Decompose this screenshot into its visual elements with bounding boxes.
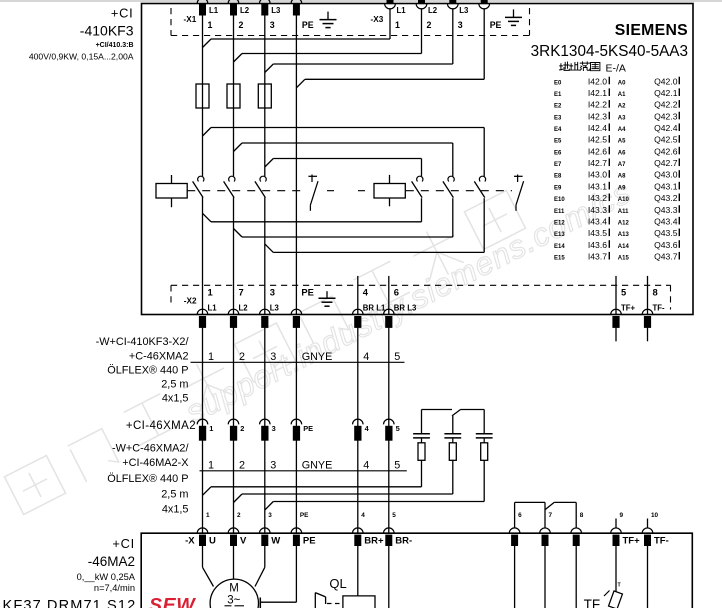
- svg-text:+CI: +CI: [112, 536, 135, 551]
- svg-text:8: 8: [580, 512, 584, 519]
- svg-text:-X3: -X3: [371, 15, 384, 24]
- svg-text:L2: L2: [428, 6, 438, 15]
- svg-text:ÖLFLEX® 440 P: ÖLFLEX® 440 P: [107, 473, 188, 485]
- svg-text:+CI-46XMA2: +CI-46XMA2: [126, 420, 196, 432]
- svg-text:5: 5: [396, 424, 400, 433]
- svg-text:ÖLFLEX® 440 P: ÖLFLEX® 440 P: [107, 364, 188, 376]
- svg-text:L3: L3: [270, 304, 280, 313]
- svg-text:A7: A7: [618, 162, 626, 168]
- svg-text:1: 1: [209, 424, 213, 433]
- svg-text:E5: E5: [554, 139, 562, 145]
- svg-text:A14: A14: [618, 244, 630, 250]
- svg-text:+CI-46MA2-X: +CI-46MA2-X: [122, 457, 189, 469]
- svg-text:TF+: TF+: [623, 536, 641, 547]
- svg-text:3: 3: [268, 512, 272, 519]
- svg-text:4: 4: [363, 286, 369, 297]
- svg-text:3: 3: [458, 20, 463, 30]
- svg-text:E0: E0: [554, 80, 562, 86]
- svg-text:BR L1: BR L1: [363, 304, 386, 313]
- svg-text:-410KF3: -410KF3: [80, 23, 134, 39]
- svg-text:I43.5: I43.5: [588, 228, 607, 238]
- svg-text:A13: A13: [618, 232, 630, 238]
- svg-text:E1: E1: [554, 92, 562, 98]
- svg-text:GNYE: GNYE: [302, 351, 333, 363]
- svg-text:5: 5: [392, 512, 396, 519]
- svg-text:L3: L3: [459, 6, 469, 15]
- svg-text:7: 7: [549, 512, 553, 519]
- svg-text:1: 1: [208, 20, 213, 30]
- svg-text:PE: PE: [301, 286, 314, 297]
- svg-text:A9: A9: [618, 185, 626, 191]
- svg-text:A15: A15: [618, 256, 630, 262]
- svg-text:2: 2: [237, 512, 241, 519]
- svg-text:BR-: BR-: [395, 536, 412, 547]
- svg-text:A6: A6: [618, 150, 626, 156]
- svg-text:1: 1: [395, 20, 400, 30]
- svg-text:9: 9: [620, 512, 624, 519]
- svg-text:Q42.2: Q42.2: [654, 100, 678, 110]
- svg-text:E-/A: E-/A: [606, 63, 626, 75]
- svg-text:2: 2: [240, 424, 244, 433]
- svg-text:6: 6: [518, 512, 522, 519]
- svg-text:1: 1: [208, 351, 214, 363]
- svg-text:-W+CI-410KF3-X2/: -W+CI-410KF3-X2/: [96, 336, 190, 348]
- svg-text:PE: PE: [490, 20, 502, 30]
- svg-text:5: 5: [394, 460, 400, 472]
- svg-text:3~: 3~: [227, 594, 240, 606]
- svg-text:TF-: TF-: [653, 304, 666, 313]
- svg-text:GNYE: GNYE: [302, 460, 333, 472]
- svg-text:E6: E6: [554, 150, 562, 156]
- svg-text:A2: A2: [618, 104, 626, 110]
- svg-text:A10: A10: [618, 197, 630, 203]
- svg-text:1: 1: [208, 460, 214, 472]
- svg-text:I43.3: I43.3: [588, 205, 607, 215]
- svg-text:0,__kW 0,25A: 0,__kW 0,25A: [77, 572, 136, 582]
- svg-text:I43.2: I43.2: [588, 193, 607, 203]
- svg-text:I43.6: I43.6: [588, 240, 607, 250]
- svg-text:3: 3: [270, 351, 276, 363]
- svg-text:M: M: [229, 582, 239, 594]
- svg-text:I43.4: I43.4: [588, 216, 607, 226]
- svg-text:I42.0: I42.0: [588, 76, 607, 86]
- svg-text:Q42.7: Q42.7: [654, 158, 678, 168]
- svg-text:L1: L1: [208, 304, 218, 313]
- svg-text:3: 3: [270, 286, 275, 297]
- svg-text:5: 5: [394, 351, 400, 363]
- svg-text:U: U: [209, 536, 216, 547]
- svg-text:-X2: -X2: [184, 297, 197, 306]
- svg-text:A1: A1: [618, 92, 626, 98]
- svg-text:Q42.1: Q42.1: [654, 88, 678, 98]
- svg-text:1: 1: [208, 286, 213, 297]
- svg-text:-46MA2: -46MA2: [88, 554, 135, 569]
- svg-text:PE: PE: [302, 20, 314, 30]
- svg-text:TF-: TF-: [654, 536, 669, 547]
- svg-text:Q43.2: Q43.2: [654, 193, 678, 203]
- svg-text:2: 2: [427, 20, 432, 30]
- svg-text:E9: E9: [554, 185, 562, 191]
- svg-text:2,5 m: 2,5 m: [161, 489, 188, 501]
- svg-text:Q42.0: Q42.0: [654, 76, 678, 86]
- svg-text:BR L3: BR L3: [394, 304, 417, 313]
- svg-text:E2: E2: [554, 104, 562, 110]
- svg-text:A4: A4: [618, 127, 626, 133]
- svg-text:A11: A11: [618, 209, 629, 215]
- svg-text:3: 3: [270, 460, 276, 472]
- svg-text:A5: A5: [618, 139, 626, 145]
- svg-text:5: 5: [621, 286, 626, 297]
- svg-text:E15: E15: [554, 256, 565, 262]
- svg-text:KF37 DRM71 S12: KF37 DRM71 S12: [3, 598, 137, 608]
- svg-text:E3: E3: [554, 115, 562, 121]
- svg-text:TF+: TF+: [621, 304, 636, 313]
- svg-text:4x1,5: 4x1,5: [162, 504, 189, 516]
- svg-text:400V/0,9KW, 0,15A...2,00A: 400V/0,9KW, 0,15A...2,00A: [29, 51, 134, 61]
- svg-text:E11: E11: [554, 209, 565, 215]
- svg-text:I42.4: I42.4: [588, 123, 607, 133]
- svg-text:E10: E10: [554, 197, 565, 203]
- svg-text:-W+C-46XMA2/: -W+C-46XMA2/: [112, 443, 190, 455]
- svg-text:+C-46XMA2: +C-46XMA2: [129, 350, 189, 362]
- svg-text:10: 10: [651, 512, 659, 519]
- svg-text:4: 4: [363, 351, 369, 363]
- svg-text:L1: L1: [397, 6, 407, 15]
- svg-text:L3: L3: [271, 6, 281, 15]
- svg-text:A12: A12: [618, 220, 630, 226]
- svg-text:L1: L1: [209, 6, 219, 15]
- svg-text:4: 4: [363, 460, 369, 472]
- svg-text:E13: E13: [554, 232, 565, 238]
- svg-text:Q42.4: Q42.4: [654, 123, 678, 133]
- svg-text:V: V: [240, 536, 247, 547]
- svg-text:1: 1: [206, 512, 210, 519]
- svg-text:I42.1: I42.1: [588, 88, 607, 98]
- svg-text:Q43.6: Q43.6: [654, 240, 678, 250]
- svg-text:E4: E4: [554, 127, 562, 133]
- svg-text:I42.2: I42.2: [588, 100, 607, 110]
- svg-text:Q42.3: Q42.3: [654, 111, 678, 121]
- svg-text:W: W: [271, 536, 280, 547]
- svg-text:+CI: +CI: [111, 5, 134, 20]
- svg-text:2: 2: [239, 20, 244, 30]
- svg-text:L2: L2: [240, 6, 250, 15]
- svg-text:4: 4: [361, 512, 365, 519]
- svg-text:2: 2: [239, 460, 245, 472]
- svg-text:A3: A3: [618, 115, 626, 121]
- svg-text:Q42.6: Q42.6: [654, 146, 678, 156]
- svg-text:Q43.1: Q43.1: [654, 181, 678, 191]
- svg-text:4x1,5: 4x1,5: [162, 393, 189, 405]
- svg-text:Q43.3: Q43.3: [654, 205, 678, 215]
- svg-text:2: 2: [239, 351, 245, 363]
- svg-text:I43.1: I43.1: [588, 181, 607, 191]
- svg-text:Q43.7: Q43.7: [654, 252, 678, 262]
- svg-text:PE: PE: [300, 512, 309, 519]
- svg-text:n=7,4/min: n=7,4/min: [94, 583, 135, 593]
- svg-text:L2: L2: [239, 304, 249, 313]
- svg-text:-X1: -X1: [184, 15, 197, 24]
- svg-text:Q43.4: Q43.4: [654, 216, 678, 226]
- svg-text:6: 6: [394, 286, 399, 297]
- svg-text:-X: -X: [185, 536, 195, 547]
- svg-text:SIEMENS: SIEMENS: [615, 22, 688, 39]
- svg-text:I43.0: I43.0: [588, 170, 607, 180]
- svg-text:I42.3: I42.3: [588, 111, 607, 121]
- svg-text:3RK1304-5KS40-5AA3: 3RK1304-5KS40-5AA3: [531, 43, 688, 60]
- svg-text:PE: PE: [303, 424, 313, 433]
- svg-text:2,5 m: 2,5 m: [161, 379, 188, 391]
- svg-text:3: 3: [272, 424, 276, 433]
- svg-text:I42.7: I42.7: [588, 158, 607, 168]
- svg-text:E14: E14: [554, 244, 565, 250]
- svg-text:I43.7: I43.7: [588, 252, 607, 262]
- svg-text:E8: E8: [554, 174, 562, 180]
- svg-text:A8: A8: [618, 174, 626, 180]
- svg-text:7: 7: [239, 286, 244, 297]
- svg-text:QL: QL: [329, 576, 346, 591]
- svg-text:8: 8: [653, 286, 658, 297]
- svg-text:BR+: BR+: [364, 536, 384, 547]
- svg-text:Q43.5: Q43.5: [654, 228, 678, 238]
- svg-text:A0: A0: [618, 80, 626, 86]
- svg-text:E7: E7: [554, 162, 562, 168]
- svg-text:PE: PE: [303, 536, 316, 547]
- svg-text:+CI/410.3:B: +CI/410.3:B: [96, 42, 134, 49]
- svg-text:Q42.5: Q42.5: [654, 135, 678, 145]
- svg-text:I42.6: I42.6: [588, 146, 607, 156]
- svg-text:I42.5: I42.5: [588, 135, 607, 145]
- svg-text:Q43.0: Q43.0: [654, 170, 678, 180]
- svg-text:3: 3: [270, 20, 275, 30]
- svg-text:SEW: SEW: [149, 595, 196, 608]
- svg-text:E12: E12: [554, 220, 565, 226]
- svg-text:TF: TF: [584, 597, 601, 608]
